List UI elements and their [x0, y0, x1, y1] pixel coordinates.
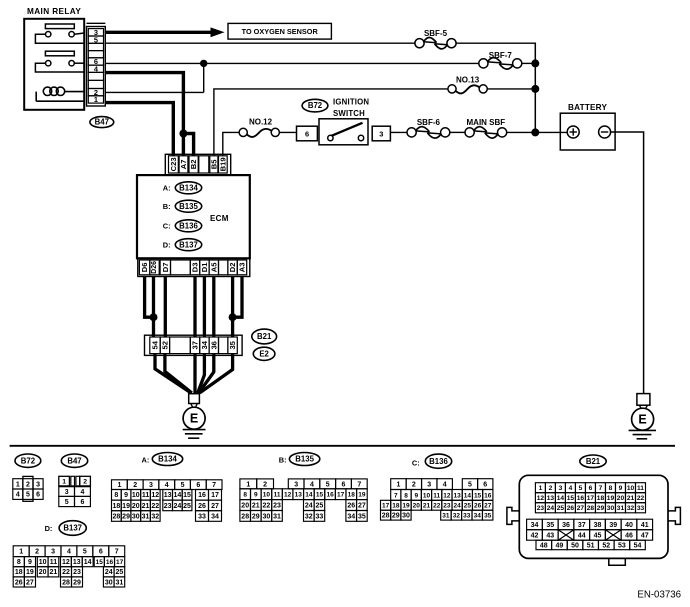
wire A3 ground [233, 277, 242, 318]
svg-text:6: 6 [99, 549, 103, 556]
wire NO.13 to junction [487, 88, 535, 90]
svg-text:B:: B: [279, 455, 287, 464]
svg-text:NO.12: NO.12 [249, 118, 273, 127]
svg-text:4: 4 [16, 492, 20, 499]
ECM blank cell [199, 156, 209, 173]
svg-text:26: 26 [474, 503, 482, 510]
svg-text:3: 3 [427, 482, 431, 489]
svg-text:D3: D3 [191, 263, 200, 273]
svg-text:19: 19 [122, 503, 130, 510]
ground pin cell 52 [160, 337, 169, 354]
svg-text:16: 16 [326, 492, 334, 499]
relay coil leads [36, 92, 84, 102]
svg-text:35: 35 [546, 522, 554, 529]
relay blank cell [88, 72, 103, 80]
svg-text:17: 17 [116, 559, 124, 566]
svg-text:33: 33 [637, 505, 645, 512]
svg-text:21: 21 [627, 495, 635, 502]
relay pin cell 1 [88, 96, 103, 103]
relay blank cell [88, 51, 103, 58]
svg-text:16: 16 [577, 495, 585, 502]
svg-text:2: 2 [549, 485, 553, 492]
svg-text:5: 5 [26, 492, 30, 499]
svg-text:32: 32 [151, 513, 159, 520]
svg-text:27: 27 [484, 503, 492, 510]
ignition switch contacts [328, 135, 333, 140]
svg-text:SBF-5: SBF-5 [424, 29, 448, 38]
svg-text:34: 34 [200, 340, 209, 349]
relay coil [43, 87, 51, 95]
svg-text:ECM: ECM [210, 214, 229, 223]
ECM bottom connector strip [138, 258, 250, 276]
svg-text:B135: B135 [295, 455, 314, 464]
battery box [560, 113, 615, 150]
relay blank cell [88, 43, 103, 50]
svg-text:6: 6 [36, 492, 40, 499]
battery positive terminal [567, 126, 579, 138]
svg-text:31: 31 [617, 505, 625, 512]
ground hatch left [183, 429, 206, 431]
ground terminal box E [189, 394, 200, 404]
svg-text:B72: B72 [308, 101, 323, 110]
relay pin cell 3 [88, 29, 103, 36]
wire terminal3 to SBF-6 [390, 131, 407, 133]
svg-text:17: 17 [211, 492, 219, 499]
junction node SBF-7/column [531, 59, 539, 67]
fuse NO.13 [448, 85, 456, 93]
connector B134 pinout grid [112, 480, 223, 522]
svg-text:14: 14 [557, 495, 565, 502]
svg-text:25: 25 [557, 505, 565, 512]
svg-text:C23: C23 [169, 157, 178, 171]
svg-text:11: 11 [637, 485, 644, 492]
svg-text:29: 29 [73, 579, 81, 586]
relay B47 box [24, 19, 84, 110]
svg-text:22: 22 [151, 503, 159, 510]
ECM pin cell A7 [179, 156, 188, 173]
svg-text:19: 19 [402, 503, 410, 510]
svg-text:43: 43 [546, 532, 554, 539]
svg-text:7: 7 [115, 549, 119, 556]
svg-text:11: 11 [274, 492, 281, 499]
wire SBF-7 to junction [522, 62, 536, 64]
svg-text:13: 13 [73, 559, 81, 566]
wire NO.12 to terminal 6 [279, 131, 296, 133]
svg-text:51: 51 [587, 542, 595, 549]
svg-text:13: 13 [547, 495, 555, 502]
svg-text:12: 12 [62, 559, 70, 566]
svg-text:21: 21 [252, 502, 260, 509]
svg-text:B72: B72 [21, 456, 36, 465]
svg-text:14: 14 [305, 492, 313, 499]
svg-text:42: 42 [531, 532, 539, 539]
wire pin6 to SBF-7 [105, 62, 479, 64]
svg-text:A3: A3 [238, 263, 247, 273]
wire 36 funnel [199, 354, 214, 393]
svg-text:29: 29 [122, 513, 130, 520]
svg-text:6: 6 [342, 481, 346, 488]
svg-text:D2: D2 [228, 263, 237, 273]
svg-text:34: 34 [474, 513, 482, 520]
svg-text:2: 2 [133, 482, 137, 489]
svg-text:35: 35 [358, 513, 366, 520]
svg-text:10: 10 [263, 492, 271, 499]
svg-text:23: 23 [73, 569, 81, 576]
svg-text:34: 34 [347, 513, 355, 520]
svg-text:21: 21 [50, 569, 58, 576]
svg-text:29: 29 [597, 505, 605, 512]
fusible link SBF-6 [407, 128, 416, 137]
svg-text:3: 3 [51, 549, 55, 556]
svg-text:10: 10 [627, 485, 635, 492]
wire pin3 to oxygen sensor with arrow [105, 31, 212, 34]
svg-text:7: 7 [599, 485, 603, 492]
svg-text:54: 54 [634, 542, 642, 549]
ground symbol E right [632, 408, 654, 430]
junction node NO.13/column [531, 85, 539, 93]
B21 connector designator [252, 329, 277, 344]
svg-text:19: 19 [26, 569, 34, 576]
svg-text:D:: D: [163, 241, 171, 250]
wire D26 ground [152, 277, 155, 338]
svg-text:14: 14 [464, 492, 472, 499]
svg-text:33: 33 [316, 513, 324, 520]
svg-text:13: 13 [454, 492, 462, 499]
svg-text:37: 37 [191, 341, 200, 349]
svg-text:36: 36 [209, 341, 218, 349]
svg-text:1: 1 [117, 482, 121, 489]
ECM pin cell B5 [210, 156, 218, 173]
svg-text:6: 6 [305, 130, 309, 139]
wire D3 ground [193, 277, 196, 338]
svg-text:20: 20 [413, 503, 421, 510]
ground pin cell 54 [150, 337, 160, 354]
svg-text:8: 8 [243, 492, 247, 499]
svg-text:29: 29 [392, 513, 400, 520]
relay contact 2 terminals [46, 61, 51, 66]
svg-text:BATTERY: BATTERY [568, 103, 607, 112]
wire D2 ground [231, 277, 234, 338]
svg-text:4: 4 [569, 485, 573, 492]
svg-text:28: 28 [382, 513, 390, 520]
ECM blank cell [171, 260, 191, 275]
svg-text:11: 11 [142, 492, 150, 499]
svg-text:B47: B47 [67, 456, 81, 465]
ground pin cell 34 [200, 337, 209, 354]
relay pin cell 4 [88, 65, 103, 72]
svg-text:9: 9 [414, 492, 418, 499]
svg-text:28: 28 [62, 579, 70, 586]
wire 35 funnel [200, 354, 233, 393]
svg-text:52: 52 [602, 542, 610, 549]
ground pin cell 36 [209, 337, 218, 354]
wire junction to B2 elbow [183, 134, 193, 156]
svg-text:12: 12 [151, 492, 159, 499]
svg-text:C:: C: [412, 458, 420, 467]
ECM blank cell [219, 260, 228, 275]
svg-text:5: 5 [326, 481, 330, 488]
svg-text:D7: D7 [161, 263, 170, 273]
relay blank cell [88, 80, 103, 88]
svg-text:D:: D: [45, 524, 53, 533]
svg-text:31: 31 [115, 579, 123, 586]
svg-text:28: 28 [587, 505, 595, 512]
svg-text:20: 20 [132, 503, 140, 510]
svg-text:23: 23 [443, 503, 451, 510]
svg-text:28: 28 [241, 513, 249, 520]
svg-text:26: 26 [567, 505, 575, 512]
svg-text:2: 2 [412, 482, 416, 489]
ECM pin cell B2 [189, 156, 198, 173]
svg-text:30: 30 [607, 505, 615, 512]
fusible link SBF-5 [415, 39, 424, 48]
relay connector strip B47 [87, 22, 106, 24]
svg-text:SBF-7: SBF-7 [489, 51, 513, 60]
ground connector strip B21/E2 [145, 335, 243, 355]
junction node D2/A3 [229, 313, 237, 321]
svg-text:20: 20 [241, 502, 249, 509]
svg-text:27: 27 [26, 579, 34, 586]
wire relay pin1 to C23 thick [105, 103, 173, 156]
svg-text:1: 1 [62, 479, 66, 486]
svg-text:11: 11 [50, 559, 58, 566]
svg-text:26: 26 [15, 579, 23, 586]
svg-text:IGNITION: IGNITION [333, 98, 369, 107]
wire B5 to NO.13 [214, 89, 448, 156]
svg-text:1: 1 [16, 481, 20, 488]
svg-text:5: 5 [468, 482, 472, 489]
svg-text:18: 18 [597, 495, 605, 502]
svg-text:TO OXYGEN SENSOR: TO OXYGEN SENSOR [242, 27, 319, 36]
ECM pin cell B19 [219, 156, 228, 173]
svg-text:44: 44 [578, 532, 586, 539]
wire B19 to NO.12 [223, 132, 239, 155]
svg-text:24: 24 [547, 505, 555, 512]
svg-text:4: 4 [310, 481, 314, 488]
svg-text:9: 9 [619, 485, 623, 492]
svg-text:25: 25 [316, 502, 324, 509]
svg-text:7: 7 [394, 492, 398, 499]
svg-text:1: 1 [396, 482, 400, 489]
fusible link MAIN SBF [465, 128, 474, 137]
svg-text:30: 30 [263, 513, 271, 520]
svg-text:53: 53 [618, 542, 626, 549]
ECM pin cell D7 [160, 260, 170, 275]
svg-text:23: 23 [164, 503, 172, 510]
svg-text:34: 34 [531, 522, 539, 529]
svg-text:8: 8 [114, 492, 118, 499]
svg-text:52: 52 [160, 341, 169, 349]
ground terminal box right [637, 394, 650, 406]
to oxygen sensor box [228, 23, 331, 39]
connector B72 pinout grid [13, 476, 43, 501]
connector B72 pinout designator [15, 454, 41, 467]
wire 34 funnel [198, 354, 205, 394]
svg-text:14: 14 [173, 492, 181, 499]
svg-text:23: 23 [537, 505, 545, 512]
svg-text:41: 41 [641, 522, 649, 529]
svg-text:27: 27 [577, 505, 585, 512]
wire pin5 to SBF-5 [105, 42, 415, 44]
svg-text:21: 21 [423, 503, 431, 510]
ECM top connector strip [165, 154, 230, 175]
svg-text:B:: B: [163, 202, 171, 211]
ECM pin cell D3 [190, 260, 199, 275]
ECM pin cell D1 [200, 260, 209, 275]
svg-text:A:: A: [163, 184, 171, 193]
svg-text:32: 32 [305, 513, 313, 520]
junction node battery column [531, 128, 539, 136]
ignition switch box [319, 119, 368, 145]
E2 connector designator [253, 347, 275, 360]
svg-text:13: 13 [164, 492, 172, 499]
svg-text:48: 48 [540, 542, 548, 549]
svg-text:15: 15 [96, 559, 104, 566]
wire 37 funnel [193, 354, 196, 394]
ECM pin cell D26 [150, 260, 159, 275]
B47 connector designator [90, 117, 114, 128]
svg-text:B5: B5 [209, 159, 218, 169]
battery junction vertical wire [534, 43, 536, 133]
relay contact 2 wiring [35, 63, 84, 72]
wire pin2 to pin6 vertical link [203, 63, 205, 92]
relay pin cell 6 [88, 58, 103, 65]
svg-text:31: 31 [273, 513, 281, 520]
wire pin2 horizontal [105, 91, 203, 93]
svg-text:B134: B134 [158, 455, 177, 464]
svg-text:SWITCH: SWITCH [333, 109, 365, 118]
connector B136 pinout grid [381, 479, 493, 520]
svg-text:32: 32 [453, 513, 461, 520]
svg-text:MAIN RELAY: MAIN RELAY [27, 7, 81, 16]
connector B135 pinout grid [240, 479, 367, 521]
svg-text:4: 4 [443, 482, 447, 489]
svg-text:D6: D6 [140, 263, 149, 273]
svg-text:6: 6 [196, 482, 200, 489]
ignition switch B72 designator [302, 99, 328, 112]
svg-text:4: 4 [80, 489, 84, 496]
svg-text:18: 18 [15, 569, 23, 576]
junction node A7/B2 [179, 130, 187, 138]
svg-text:15: 15 [567, 495, 575, 502]
connector B47 pinout designator [61, 454, 87, 467]
svg-text:NO.13: NO.13 [456, 75, 480, 84]
svg-text:22: 22 [263, 502, 271, 509]
svg-text:2: 2 [26, 481, 30, 488]
svg-text:10: 10 [423, 492, 431, 499]
svg-text:12: 12 [284, 492, 292, 499]
svg-text:10: 10 [39, 559, 47, 566]
svg-text:A5: A5 [209, 262, 218, 272]
svg-text:54: 54 [151, 340, 160, 349]
svg-text:11: 11 [433, 492, 440, 499]
svg-text:50: 50 [571, 542, 579, 549]
relay pin cell 2 [88, 89, 103, 96]
svg-text:30: 30 [402, 513, 410, 520]
svg-text:24: 24 [454, 503, 462, 510]
svg-text:3: 3 [559, 485, 563, 492]
svg-text:5: 5 [65, 499, 69, 506]
svg-text:7: 7 [357, 481, 361, 488]
wire D1 ground [203, 277, 206, 338]
svg-text:9: 9 [28, 559, 32, 566]
svg-text:30: 30 [132, 513, 140, 520]
svg-text:1: 1 [19, 549, 23, 556]
svg-text:27: 27 [211, 503, 219, 510]
svg-text:33: 33 [198, 513, 206, 520]
svg-text:5: 5 [83, 549, 87, 556]
svg-text:46: 46 [625, 532, 633, 539]
svg-text:C:: C: [163, 222, 171, 231]
svg-text:3: 3 [379, 130, 383, 139]
svg-text:18: 18 [112, 503, 120, 510]
junction node D6/D26 [150, 313, 158, 321]
wire SBF-6 to MAIN SBF [450, 131, 465, 133]
svg-text:1: 1 [539, 485, 543, 492]
fusible link SBF-7 [479, 59, 488, 68]
ground pin cell 35 [228, 337, 237, 354]
svg-text:10: 10 [132, 492, 140, 499]
svg-text:24: 24 [173, 503, 181, 510]
relay contact 1 wiring [35, 34, 84, 43]
svg-text:47: 47 [641, 532, 649, 539]
ECM pin cell A3 [237, 260, 246, 275]
svg-text:6: 6 [483, 482, 487, 489]
svg-text:MAIN SBF: MAIN SBF [467, 118, 506, 127]
svg-text:2: 2 [35, 549, 39, 556]
svg-text:35: 35 [228, 340, 237, 349]
svg-text:19: 19 [607, 495, 615, 502]
svg-text:21: 21 [142, 503, 150, 510]
svg-text:17: 17 [337, 492, 345, 499]
connector B21 bottom tab [609, 558, 626, 565]
ground blank cell [219, 337, 228, 354]
connector B21 housing [519, 475, 668, 558]
svg-text:E: E [638, 413, 646, 427]
svg-text:6: 6 [80, 499, 84, 506]
ECM pin cell D2 [228, 260, 237, 275]
svg-text:6: 6 [589, 485, 593, 492]
svg-text:45: 45 [594, 532, 602, 539]
svg-text:26: 26 [198, 503, 206, 510]
connector B47 pinout grid [59, 476, 91, 506]
svg-text:17: 17 [382, 503, 390, 510]
junction node pin6/pin2 [200, 60, 207, 67]
svg-text:15: 15 [474, 492, 482, 499]
connector B21 left tab [507, 507, 519, 524]
ground hatch right [629, 429, 656, 431]
svg-text:38: 38 [594, 522, 602, 529]
svg-text:23: 23 [273, 502, 281, 509]
svg-text:18: 18 [348, 492, 356, 499]
svg-text:B136: B136 [179, 221, 198, 230]
relay pin cell 5 [88, 36, 103, 43]
wire A5 ground [212, 277, 215, 338]
relay contact 1 fixed bar [45, 24, 74, 29]
svg-text:5: 5 [181, 482, 185, 489]
svg-text:12: 12 [537, 495, 545, 502]
svg-text:16: 16 [106, 559, 114, 566]
connector B137 pinout grid [13, 546, 125, 587]
svg-text:33: 33 [463, 513, 471, 520]
svg-text:B136: B136 [429, 457, 448, 466]
ground pin cell 37 [190, 337, 199, 354]
ground symbol E left [183, 407, 205, 429]
wire D6 ground [145, 277, 154, 318]
connector B21 pinout designator [580, 455, 606, 468]
connector B21 top pin grid [535, 483, 645, 513]
svg-text:32: 32 [627, 505, 635, 512]
